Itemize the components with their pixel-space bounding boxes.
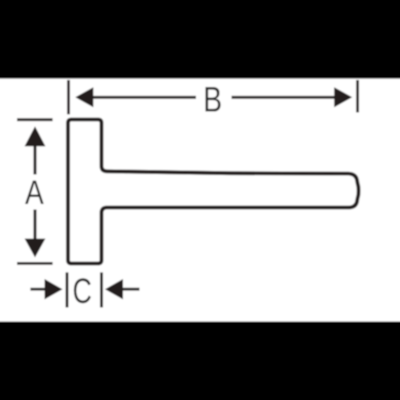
dimension B left arrowhead (75, 87, 93, 107)
dimension B line right segment (232, 96, 337, 99)
dimension C right tail (122, 288, 140, 291)
bottom black letterbox band (0, 322, 400, 400)
dimension C right arrowhead (pointing left) (105, 279, 123, 299)
dimension B left extension tick (67, 80, 70, 114)
svg-text:A: A (25, 174, 44, 212)
top black letterbox band (0, 0, 400, 79)
dimension C left tick (66, 272, 69, 307)
dimension A upper stem (33, 145, 36, 175)
dimension A down arrowhead (25, 239, 46, 258)
dimension A top extension tick (17, 118, 53, 121)
dimension B line left segment (90, 96, 196, 99)
dimension A lower stem (33, 210, 36, 241)
T-shape part outline (68, 120, 359, 264)
dimension B right arrowhead (334, 87, 352, 107)
svg-text:C: C (73, 271, 92, 310)
svg-text:B: B (203, 80, 222, 119)
dimension C right tick (100, 272, 103, 307)
dimension A up arrowhead (25, 126, 46, 146)
dimension C left arrowhead (pointing right) (45, 279, 63, 299)
dimension B right extension tick (356, 80, 359, 113)
dimension A bottom extension tick (17, 262, 53, 265)
dimension C left tail (30, 288, 46, 291)
